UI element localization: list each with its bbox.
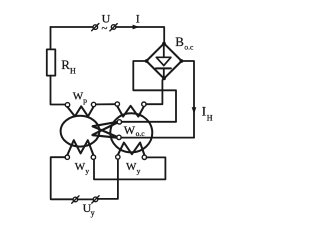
winding right core Wy zigzag (118, 143, 145, 155)
svg-text:W: W (126, 161, 137, 173)
terminal right core top winding pin 2 (142, 102, 146, 106)
label Uy (83, 201, 95, 218)
label RH (61, 57, 76, 76)
terminal plug left of Uy source (72, 196, 79, 203)
svg-text:y: y (91, 209, 95, 218)
label Wy left (75, 161, 90, 176)
node bridge left (145, 59, 149, 63)
winding Wo.c link line 1 (93, 122, 118, 126)
svg-text:I: I (136, 11, 140, 25)
terminal right core top winding pin 1 (115, 102, 119, 106)
magnetic core A (left) (61, 116, 100, 147)
diode of bridge anode lead (163, 46, 165, 58)
svg-text:W: W (75, 161, 86, 173)
svg-text:H: H (207, 113, 213, 122)
terminal plug right of Uy source (92, 196, 99, 203)
terminal left core Wy pin 1 (65, 155, 69, 159)
terminal plug left of U~ source (92, 24, 99, 31)
svg-text:y: y (85, 167, 89, 176)
wire left vertical from top to resistor (50, 27, 52, 49)
svg-text:B: B (175, 34, 184, 49)
svg-text:o.c: o.c (184, 42, 194, 51)
wire between Uy plugs (78, 198, 94, 200)
node bridge bottom (162, 77, 166, 81)
terminal left core winding Wp pin 1 (65, 103, 69, 107)
bridge rectifier Bo.c diamond (146, 43, 181, 78)
wire Wo.c bottom tap to IH wire (121, 137, 194, 139)
arrow current IH (192, 107, 197, 114)
node bridge right (180, 59, 184, 63)
node bridge top (162, 42, 166, 46)
diode of bridge triangle (156, 57, 171, 65)
label Wp (73, 91, 87, 105)
svg-text:o.c: o.c (136, 129, 146, 138)
svg-text:y: y (137, 167, 141, 176)
wire bridge right corner down carrying IH (182, 61, 194, 138)
winding Wo.c link line 2 (93, 126, 117, 136)
winding Wo.c link line 4 (93, 135, 117, 137)
terminal left core winding Wp pin 2 (91, 102, 95, 106)
wire between Wp and right core top winding (96, 103, 115, 105)
label Wo.c (124, 123, 145, 138)
wire top-left horizontal (51, 26, 94, 28)
terminal Wo.c top tap (117, 120, 121, 124)
diode of bridge cathode lead (163, 68, 165, 76)
arrow current I (133, 25, 140, 30)
magnetic core B (right) (110, 113, 152, 152)
label IH (202, 103, 213, 122)
terminal plug right of U~ source (110, 24, 117, 31)
winding Wp zigzag (68, 106, 94, 116)
wire left core Wy pin1 to Uy loop (51, 157, 73, 199)
diode of bridge cathode bar (156, 67, 171, 69)
svg-text:W: W (73, 91, 84, 103)
terminal right core Wy pin 1 (116, 155, 120, 159)
terminal Wo.c bottom tap (117, 135, 121, 139)
winding Wo.c link line 3 (93, 123, 118, 135)
svg-text:H: H (70, 67, 76, 76)
svg-text:W: W (124, 123, 136, 137)
svg-text:~: ~ (102, 23, 108, 35)
label Wy right (126, 161, 141, 176)
terminal left core Wy pin 2 (91, 155, 95, 159)
svg-text:p: p (83, 96, 87, 105)
winding left core Wy zigzag (67, 140, 93, 155)
wire Wo.c top tap to bridge (122, 121, 176, 123)
winding right core top zigzag (117, 106, 144, 117)
wire top horizontal to bridge (116, 27, 164, 43)
wire left Wy pin2 to right Wy pin2 series link (94, 157, 165, 179)
wire from resistor down to left core (51, 76, 66, 105)
wire bridge bottom to right core top winding (146, 80, 162, 104)
svg-text:I: I (202, 103, 206, 118)
resistor RH (47, 49, 56, 75)
svg-text:R: R (61, 57, 70, 72)
wire bridge left corner to o.c winding top tap (133, 61, 176, 122)
label Bo.c (175, 34, 194, 52)
wire Uy right plug to right core Wy pin1 (98, 159, 118, 199)
terminal right core Wy pin 2 (142, 155, 146, 159)
